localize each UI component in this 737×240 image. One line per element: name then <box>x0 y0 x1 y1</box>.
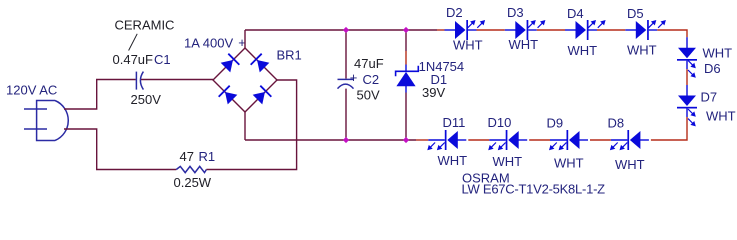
svg-text:47uF: 47uF <box>354 56 384 71</box>
svg-text:D3: D3 <box>507 5 524 20</box>
LED D3 <box>505 20 537 40</box>
wire red D4-D5 <box>597 29 625 31</box>
LED D4 <box>565 20 597 40</box>
svg-text:WHT: WHT <box>627 43 657 58</box>
wire red to D11 <box>416 139 428 141</box>
svg-text:D11: D11 <box>443 115 466 130</box>
wire red D3-D4 <box>537 29 565 31</box>
LED D10 <box>489 130 527 150</box>
wire red to D2 <box>437 29 445 31</box>
svg-text:BR1: BR1 <box>277 48 302 63</box>
svg-text:C1: C1 <box>154 52 171 67</box>
junction node D1 bottom <box>403 137 409 143</box>
svg-text:WHT: WHT <box>568 43 598 58</box>
svg-text:R1: R1 <box>199 149 216 164</box>
LED D8 <box>611 130 649 150</box>
junction node C2 bottom <box>343 137 349 143</box>
wire red D2-D3 <box>477 29 505 31</box>
svg-text:50V: 50V <box>357 87 380 102</box>
svg-text:47: 47 <box>180 149 194 164</box>
wire D1 bottom <box>405 93 407 141</box>
junction node D1 top <box>403 27 409 33</box>
wire D1 top <box>405 30 407 51</box>
D5 emission arrows <box>649 20 666 28</box>
svg-text:120V AC: 120V AC <box>6 83 57 98</box>
LED D11 <box>428 130 466 150</box>
svg-text:C2: C2 <box>363 72 380 87</box>
D4 emission arrows <box>588 20 605 28</box>
D10 emission arrows <box>488 143 505 151</box>
D2 emission arrows <box>468 20 485 28</box>
LED D5 <box>625 20 657 40</box>
svg-text:D5: D5 <box>627 6 644 21</box>
svg-text:WHT: WHT <box>703 46 733 61</box>
D6 emission arrows <box>688 60 696 77</box>
svg-text:WHT: WHT <box>438 153 468 168</box>
wire top rail <box>245 29 437 31</box>
svg-text:CERAMIC: CERAMIC <box>115 18 175 33</box>
AC plug P1 <box>24 101 68 141</box>
wire red D6-D7 <box>686 69 688 85</box>
svg-text:D6: D6 <box>704 61 721 76</box>
svg-text:39V: 39V <box>422 85 445 100</box>
wire bridge top vertex to rail <box>244 30 246 48</box>
LED D2 <box>445 20 477 40</box>
wire red D5 to right corner <box>657 30 687 37</box>
D9 emission arrows <box>549 143 566 151</box>
svg-text:1A 400V: 1A 400V <box>184 35 233 50</box>
wire C1 to bridge <box>141 79 213 81</box>
svg-text:WHT: WHT <box>509 37 539 52</box>
svg-text:D9: D9 <box>547 116 564 131</box>
bridge diode bottom-right <box>252 85 272 105</box>
wire red D8-D9 <box>590 139 611 141</box>
resistor R1 <box>176 166 206 172</box>
wire plug top to corner <box>64 80 136 110</box>
D3 emission arrows <box>528 20 545 28</box>
svg-text:D2: D2 <box>446 5 463 20</box>
svg-text:WHT: WHT <box>615 157 645 172</box>
wire red D7 to bottom corner <box>651 117 687 140</box>
D11 emission arrows <box>427 143 444 151</box>
svg-text:LW E67C-T1V2-5K8L-1-Z: LW E67C-T1V2-5K8L-1-Z <box>462 182 606 197</box>
wire red D9-D10 <box>529 139 550 141</box>
bridge rectifier BR1 diamond <box>213 48 277 112</box>
wire R1 to bridge right vertex <box>206 80 296 170</box>
svg-text:WHT: WHT <box>554 156 584 171</box>
leader line <box>129 34 138 51</box>
svg-text:D7: D7 <box>701 90 718 105</box>
svg-text:WHT: WHT <box>493 154 523 169</box>
bridge diode top-right <box>250 53 270 73</box>
wire C2 top <box>345 30 347 79</box>
wire bottom rail <box>245 139 416 141</box>
svg-text:WHT: WHT <box>706 109 736 124</box>
LED D6 <box>677 37 697 69</box>
wire plug bottom to R1 <box>64 129 176 170</box>
D8 emission arrows <box>610 143 627 151</box>
capacitor C1 <box>136 72 143 90</box>
svg-text:+: + <box>350 70 358 85</box>
svg-text:D8: D8 <box>608 116 625 131</box>
svg-text:250V: 250V <box>131 92 162 107</box>
svg-text:D4: D4 <box>567 6 584 21</box>
svg-text:0.47uF: 0.47uF <box>113 52 154 67</box>
LED D9 <box>550 130 588 150</box>
wire bridge bottom vertex <box>244 112 246 140</box>
junction node C2 top <box>343 27 349 33</box>
bridge diode top-left <box>220 53 240 73</box>
zener diode D1 <box>396 65 419 93</box>
svg-text:0.25W: 0.25W <box>174 175 212 190</box>
LED D7 <box>677 85 697 117</box>
svg-text:D10: D10 <box>488 115 512 130</box>
bridge diode bottom-left <box>218 85 238 105</box>
svg-text:WHT: WHT <box>453 38 483 53</box>
D7 emission arrows <box>688 109 696 126</box>
wire red D10-D11 <box>468 139 489 141</box>
capacitor C2 <box>338 79 354 88</box>
wire C2 bottom <box>345 89 347 140</box>
